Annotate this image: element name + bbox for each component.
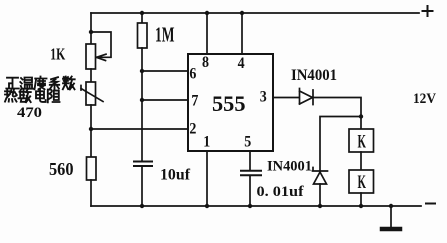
label 555 <box>212 91 246 116</box>
wire pin 6 <box>142 70 188 72</box>
wire between relay boxes <box>360 152 362 170</box>
svg-text:10uf: 10uf <box>160 167 191 184</box>
node junction top rail to pin 8 <box>205 11 209 15</box>
svg-text:1: 1 <box>203 134 210 151</box>
svg-text:12V: 12V <box>413 91 436 107</box>
node junction wiper tap <box>89 30 93 34</box>
label IN4001 top <box>291 67 337 84</box>
wire 560 to bottom rail <box>90 180 92 206</box>
svg-text:2: 2 <box>189 121 196 138</box>
svg-text:4: 4 <box>238 55 245 72</box>
svg-text:560: 560 <box>49 159 74 179</box>
capacitor C2 0.01uf <box>241 171 261 176</box>
pin 6 label <box>189 66 196 83</box>
relay coil K lower box <box>349 170 374 193</box>
svg-text:IN4001: IN4001 <box>291 67 337 84</box>
wire relay to bottom rail <box>360 193 362 206</box>
wire thermistor to node A <box>90 105 92 157</box>
wire pin 2 to node A <box>91 128 188 130</box>
wire C2 to bottom rail <box>249 176 251 206</box>
node junction top rail to pin 4 <box>240 11 244 15</box>
pin 5 label <box>244 134 251 151</box>
pin 4 label <box>238 55 245 72</box>
label 1K <box>50 45 65 64</box>
op-amp U1 555 timer body <box>188 54 273 151</box>
svg-text:IN4001: IN4001 <box>267 159 312 175</box>
wire D2 anode to bottom rail <box>319 184 321 206</box>
pin 8 label <box>202 54 209 71</box>
label 12V <box>413 91 436 107</box>
label 10uf <box>160 167 191 184</box>
pin 2 label <box>189 121 196 138</box>
label K lower <box>358 172 367 193</box>
thermistor RT 470 body <box>81 82 103 105</box>
wire left branch from top rail down to potentiometer <box>90 13 92 44</box>
wire C1 to bottom rail <box>141 167 143 206</box>
diode D1 IN4001 <box>300 89 314 105</box>
label + positive supply <box>423 6 433 16</box>
pin 1 label <box>203 134 210 151</box>
ground <box>382 204 400 229</box>
wire D1 cathode to relay branch <box>313 98 361 130</box>
node junction flyback branch <box>359 114 363 118</box>
label Chinese PTC thermistor text line 1 (zheng wen du xi shu) <box>6 77 74 90</box>
wire flyback branch to D2 <box>320 117 361 172</box>
wire 1M bottom to capacitor C1 node <box>141 48 143 161</box>
wire bottom negative rail <box>91 205 421 207</box>
pin 3 label <box>260 89 267 106</box>
wire pin 7 <box>142 99 188 101</box>
node junction pin 7 <box>140 98 144 102</box>
label 1M <box>155 23 175 47</box>
svg-text:470: 470 <box>17 105 42 121</box>
label K upper <box>358 132 367 153</box>
node junction pin 1 bottom rail <box>205 204 209 208</box>
label 470 thermistor value <box>17 105 42 121</box>
node junction pin 6 <box>140 69 144 73</box>
svg-text:555: 555 <box>212 91 246 116</box>
label 0.01uf <box>257 184 305 200</box>
diode D2 IN4001 flyback <box>313 168 328 185</box>
svg-text:8: 8 <box>202 54 209 71</box>
resistor R3 560 body <box>87 157 97 180</box>
label 560 <box>49 159 74 179</box>
wire potentiometer wiper <box>91 32 111 61</box>
node junction D2 bottom rail <box>318 204 322 208</box>
wire pin 3 output <box>273 97 299 99</box>
svg-text:1K: 1K <box>50 45 65 64</box>
wire potentiometer to thermistor <box>90 69 92 82</box>
svg-text:7: 7 <box>191 93 198 110</box>
label - negative supply <box>426 203 435 205</box>
wire pin 8 to top rail <box>206 13 208 54</box>
node A junction divider to pin 2 <box>89 127 93 131</box>
relay coil K upper box <box>349 129 374 152</box>
label Chinese PTC thermistor text line 2 (re min dian zu) <box>5 89 60 102</box>
wire pin 5 to capacitor C2 <box>249 151 251 171</box>
capacitor C1 10uf <box>134 162 152 167</box>
wire pin 4 to top rail <box>241 13 243 54</box>
svg-text:5: 5 <box>244 134 251 151</box>
pin 7 label <box>191 93 198 110</box>
svg-text:K: K <box>358 132 367 153</box>
svg-text:3: 3 <box>260 89 267 106</box>
resistor R2 1M <box>138 13 148 48</box>
label IN4001 bottom <box>267 159 312 175</box>
node junction top rail to 1M <box>140 11 144 15</box>
resistor R1 potentiometer 1K body <box>86 44 96 69</box>
svg-text:6: 6 <box>189 66 196 83</box>
node junction C1 bottom rail <box>140 204 144 208</box>
node junction relay bottom rail <box>359 204 363 208</box>
svg-text:1M: 1M <box>155 23 175 47</box>
wire top positive rail <box>91 12 419 14</box>
node junction C2 bottom rail <box>248 204 252 208</box>
svg-text:0. 01uf: 0. 01uf <box>257 184 305 200</box>
svg-text:K: K <box>358 172 367 193</box>
wire pin 1 to bottom rail <box>206 151 208 206</box>
